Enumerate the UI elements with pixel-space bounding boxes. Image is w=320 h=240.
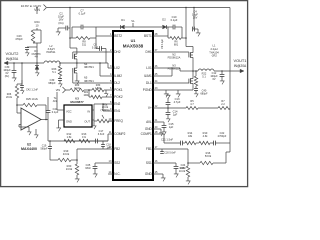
- svg-text:EN1: EN1: [114, 109, 120, 113]
- svg-text:6V: 6V: [212, 77, 215, 81]
- svg-text:FB1: FB1: [146, 147, 152, 151]
- svg-text:0.1µF: 0.1µF: [52, 110, 59, 114]
- pin 26 LX1 (right): [153, 67, 158, 69]
- resistor R18 10.0k: [186, 166, 189, 177]
- svg-text:IN@20A: IN@20A: [6, 57, 19, 61]
- wire VIN drop left: [69, 7, 71, 9]
- capacitor C17 3.3nF: [90, 140, 96, 142]
- svg-text:LX1: LX1: [146, 66, 152, 70]
- snubber capacitor C39 680pF: [59, 76, 61, 79]
- capacitor C41 0.1uF: [46, 110, 51, 112]
- ground op-amp input: [28, 130, 30, 132]
- wire FB1: [158, 148, 188, 150]
- wire VOUT1 sense bus: [229, 108, 231, 152]
- svg-text:4.7: 4.7: [190, 103, 194, 106]
- svg-text:681: 681: [174, 42, 179, 46]
- svg-text:AVL: AVL: [146, 120, 152, 124]
- svg-text:MAX5038: MAX5038: [123, 44, 144, 49]
- capacitor C2: [68, 27, 70, 29]
- svg-text:C21 1.5nF: C21 1.5nF: [161, 138, 174, 142]
- pin 7 POK2 (left): [108, 96, 113, 98]
- svg-text:EN2: EN2: [114, 102, 120, 106]
- svg-text:SS1: SS1: [146, 161, 152, 165]
- capacitor C13 4.7uF: [167, 107, 169, 109]
- svg-text:GND: GND: [66, 120, 72, 124]
- svg-text:C9 0.1µF: C9 0.1µF: [161, 38, 164, 49]
- svg-text:OUT: OUT: [84, 120, 90, 124]
- snubber resistor R23 5.1: [59, 62, 61, 64]
- svg-text:COMP1: COMP1: [141, 132, 152, 136]
- pin 12 FB2 (left): [108, 148, 113, 150]
- pin 17 FB1 (right): [153, 148, 158, 150]
- wire EN2: [103, 103, 108, 105]
- ground U3: [58, 126, 60, 128]
- capacitor C14 1uF: [167, 108, 169, 112]
- pin 18 COMP1 (right): [153, 133, 158, 135]
- svg-text:BST1: BST1: [144, 34, 152, 38]
- wire PGND: [158, 89, 193, 91]
- svg-text:53.6k: 53.6k: [205, 154, 212, 158]
- svg-text:IRF7821: IRF7821: [84, 65, 94, 69]
- ground N5 source: [76, 75, 78, 79]
- wire VIN right bus down: [229, 8, 231, 72]
- svg-text:FB2: FB2: [114, 147, 120, 151]
- VIN mid chevron: [63, 87, 66, 93]
- wire LX2 node: [76, 61, 78, 67]
- ground C2: [57, 30, 59, 32]
- capacitor C15 1uF: [163, 122, 165, 125]
- svg-text:470pF: 470pF: [15, 37, 23, 41]
- wire DH1 gate: [158, 51, 189, 53]
- svg-text:D1: D1: [121, 18, 125, 22]
- resistor R8 511: [71, 27, 73, 38]
- ground R20: [76, 175, 78, 177]
- svg-text:V+: V+: [148, 106, 152, 110]
- svg-text:LX2: LX2: [114, 66, 120, 70]
- wire R24 stem: [36, 7, 38, 9]
- MOSFET N5 IRF7821: [72, 68, 74, 73]
- VOUT1 arrow: [240, 69, 244, 73]
- wire VIN drop right: [185, 7, 187, 9]
- wire R29-R30 junction: [84, 89, 92, 91]
- wire U3 GND: [59, 119, 65, 121]
- capacitor C4: [193, 7, 195, 9]
- wire FB2: [77, 148, 108, 150]
- resistor R20 24.9k: [75, 164, 78, 175]
- wire AVL: [158, 121, 164, 123]
- wire loop to VIN drop right: [182, 37, 186, 39]
- svg-text:24.9k: 24.9k: [66, 167, 73, 171]
- resistor R10 4.3k: [196, 142, 199, 144]
- svg-text:4.7µF: 4.7µF: [174, 100, 181, 104]
- svg-text:5.1: 5.1: [202, 74, 206, 78]
- svg-text:VIN: VIN: [56, 88, 60, 92]
- ground PGND 2: [177, 90, 179, 92]
- pin 20 GND (right): [153, 128, 158, 130]
- wire V+ row: [158, 107, 186, 109]
- pin 16 SS1 (right): [153, 162, 158, 164]
- wire LX1 node: [192, 59, 194, 77]
- svg-text:THA104: THA104: [209, 50, 219, 54]
- resistor R13 4.99k: [75, 140, 79, 142]
- wire ILIM1: [158, 75, 172, 77]
- wire U3 IN: [92, 109, 94, 111]
- schematic border frame: [1, 1, 248, 187]
- svg-text:R21: R21: [84, 92, 89, 94]
- pin 3 LX2 (left): [108, 67, 113, 69]
- capacitor C8 0.1uF: [95, 38, 97, 49]
- svg-text:PGND: PGND: [143, 88, 153, 92]
- svg-text:D2: D2: [162, 18, 166, 22]
- capacitor C30 100uF: [13, 62, 15, 64]
- wire DL1 gate: [158, 82, 189, 84]
- pin 28 BST1 (right): [153, 35, 158, 37]
- resistor R29 10.0k: [66, 89, 71, 91]
- ground GND pin 20: [158, 128, 161, 130]
- svg-text:VL: VL: [131, 19, 135, 23]
- wire DH2 gate: [73, 51, 108, 53]
- resistor R21 100k: [88, 90, 90, 97]
- ground C14: [167, 117, 169, 119]
- svg-text:10: 10: [35, 24, 39, 28]
- svg-text:4.3k: 4.3k: [203, 134, 209, 138]
- svg-text:R24: R24: [34, 20, 40, 24]
- svg-text:IN@20A: IN@20A: [234, 64, 247, 68]
- pin 14 N.C. (left): [108, 173, 113, 175]
- svg-text:100k: 100k: [83, 95, 89, 97]
- pin 22 V+ (right): [153, 107, 158, 109]
- VIN arrow: [44, 5, 47, 11]
- snubber resistor R22 5.1: [195, 70, 197, 72]
- svg-text:0.1µF: 0.1µF: [92, 47, 99, 50]
- ground PGND 1: [165, 90, 167, 92]
- pin 21 AVL (right): [153, 121, 158, 123]
- wire LX1 pin: [158, 67, 180, 69]
- wire op-amp output: [41, 119, 48, 121]
- pin 1 BST2 (left): [108, 35, 113, 37]
- wire U3 OUT: [92, 119, 94, 121]
- svg-text:GND: GND: [145, 172, 153, 176]
- MOSFET N4 IRF7821: [72, 54, 74, 59]
- wire non-inverting input: [19, 124, 21, 126]
- resistor R12 1.5k: [64, 139, 75, 142]
- svg-text:33nF: 33nF: [85, 166, 91, 170]
- snubber capacitor C40 680pF: [195, 86, 197, 89]
- svg-text:BST2: BST2: [114, 34, 122, 38]
- svg-text:(Os): (Os): [58, 21, 63, 25]
- svg-text:ILIM1: ILIM1: [144, 74, 152, 78]
- svg-text:1µF: 1µF: [169, 125, 174, 129]
- wire loop to VIN drop: [69, 37, 71, 39]
- svg-text:33nF: 33nF: [180, 166, 186, 170]
- wire VOUT2 rail: [4, 62, 44, 64]
- ground D3: [36, 71, 38, 73]
- svg-text:SS2: SS2: [114, 161, 120, 165]
- ground C12: [221, 79, 223, 81]
- IC U1 MAX5038: [113, 31, 153, 180]
- svg-text:DL2: DL2: [114, 81, 120, 85]
- capacitor C12 100uF: [221, 70, 223, 72]
- svg-text:GND: GND: [145, 127, 153, 131]
- pin 11 COMP2 (left): [108, 133, 113, 135]
- capacitor C18 1nF: [102, 141, 104, 145]
- op-amp U2 MAX4400: [21, 108, 41, 130]
- svg-text:VCC: VCC: [66, 110, 72, 114]
- ground snubber left: [59, 82, 61, 84]
- svg-text:10.0k: 10.0k: [74, 87, 81, 90]
- ground op-amp power: [35, 129, 37, 133]
- capacitor C25 33nF: [95, 162, 108, 164]
- svg-text:2.2: 2.2: [221, 103, 225, 106]
- svg-text:U1: U1: [131, 39, 136, 43]
- svg-text:43k: 43k: [188, 134, 193, 138]
- wire R7 to VIN bus: [229, 71, 231, 108]
- svg-text:IN: IN: [87, 110, 90, 114]
- svg-text:COMP2: COMP2: [114, 132, 125, 136]
- pin 13 SS2 (left): [108, 162, 113, 164]
- ground R18: [187, 177, 189, 179]
- svg-text:N.C.: N.C.: [114, 172, 120, 176]
- svg-text:IRF7821: IRF7821: [84, 79, 94, 83]
- resistor R5 4.7: [186, 107, 198, 110]
- svg-text:DH1: DH1: [146, 50, 153, 54]
- wire VOUT1 rail: [214, 70, 240, 72]
- pin 23 PGND (right): [153, 89, 158, 91]
- wire DL2 gate: [73, 82, 108, 84]
- VOUT2 arrow: [4, 61, 8, 65]
- svg-text:511: 511: [82, 42, 87, 46]
- wire EN1: [103, 110, 108, 112]
- svg-text:5.1: 5.1: [52, 70, 56, 74]
- svg-text:43.0k: 43.0k: [63, 152, 70, 156]
- svg-text:FDS6612A: FDS6612A: [168, 56, 181, 60]
- svg-text:2700pF: 2700pF: [218, 134, 227, 138]
- wire BST1 pin: [158, 35, 168, 37]
- MOSFET N2 FDS6612A: [188, 53, 190, 58]
- pin 24 DL1 (right): [153, 82, 158, 84]
- resistor R30 1.50k: [92, 88, 104, 91]
- svg-text:POK1: POK1: [114, 88, 123, 92]
- svg-text:MAX8877: MAX8877: [70, 100, 84, 104]
- svg-text:1.5k: 1.5k: [67, 135, 73, 139]
- ground POK1: [105, 90, 107, 92]
- svg-text:POK2: POK2: [114, 95, 123, 99]
- pin 9 EN1 (left): [108, 110, 113, 112]
- svg-text:DL1: DL1: [146, 81, 152, 85]
- wire inverting input: [16, 105, 18, 113]
- pin 5 DL2 (left): [108, 82, 113, 84]
- wire U3 VCC: [56, 92, 58, 110]
- svg-text:VOUT1: VOUT1: [234, 58, 247, 63]
- wire LX2 rail: [60, 62, 77, 64]
- svg-text:680pF: 680pF: [48, 81, 56, 85]
- wire N3 source to PGND: [192, 85, 194, 90]
- resistor R6 681: [167, 27, 169, 38]
- wire ILIM2: [100, 75, 108, 77]
- pin 10 FREQ (left): [108, 120, 113, 122]
- MOSFET N3 FDS6612A: [188, 79, 190, 84]
- svg-text:C42 1.2nF: C42 1.2nF: [26, 88, 38, 92]
- wire VOUT2 sense drop: [21, 62, 23, 64]
- ground C15: [163, 130, 165, 132]
- ground C24: [175, 172, 177, 174]
- wire COMP2 row: [48, 140, 108, 142]
- pin 4 ILIM2 (left): [108, 75, 113, 77]
- svg-text:FREQ: FREQ: [114, 119, 123, 123]
- pin 15 GND (right): [153, 173, 158, 175]
- wire EN rail to FREQ: [94, 103, 103, 105]
- svg-text:-40: -40: [34, 55, 38, 59]
- wire VIN rail: [47, 7, 230, 9]
- pin 27 DH1 (right): [153, 51, 158, 53]
- svg-text:VOUT2: VOUT2: [6, 51, 19, 56]
- svg-text:16V: 16V: [193, 16, 198, 20]
- svg-text:680pF: 680pF: [200, 91, 208, 95]
- svg-text:3.3nF: 3.3nF: [98, 132, 105, 136]
- pin 8 EN2 (left): [108, 103, 113, 105]
- resistor R16 53.6k: [187, 149, 189, 166]
- pin 6 POK1 (left): [108, 89, 113, 91]
- ground snubber right: [195, 92, 197, 94]
- wire FREQ: [109, 120, 113, 122]
- svg-text:1.50k: 1.50k: [95, 87, 102, 90]
- ground C30: [13, 76, 15, 78]
- svg-text:0.1µF: 0.1µF: [171, 18, 178, 22]
- pin 25 ILIM1 (right): [153, 75, 158, 77]
- svg-text:FDS6612A: FDS6612A: [168, 67, 181, 71]
- svg-text:DH2: DH2: [114, 50, 121, 54]
- ground FREQ pot: [93, 124, 95, 126]
- resistor R14 43k: [185, 141, 196, 144]
- capacitor C22 2700pF: [210, 142, 214, 144]
- ground C4: [197, 31, 199, 33]
- svg-text:C20 5.6nF: C20 5.6nF: [164, 152, 176, 155]
- svg-text:560pF: 560pF: [40, 147, 48, 150]
- wire LX2 rail to pin: [77, 62, 108, 64]
- capacitor C24 33nF: [158, 162, 176, 164]
- svg-text:MAX4400: MAX4400: [21, 147, 37, 151]
- svg-text:AVL: AVL: [53, 100, 58, 103]
- svg-text:20.0k: 20.0k: [6, 96, 13, 99]
- ground C42: [21, 89, 23, 91]
- svg-text:R25 10.2k: R25 10.2k: [26, 97, 39, 101]
- pin 2 DH2 (left): [108, 51, 113, 53]
- svg-text:(TMPG): (TMPG): [100, 108, 109, 112]
- ground C25: [94, 172, 96, 174]
- ground C43: [26, 51, 28, 53]
- wire BST2 pin: [96, 35, 108, 37]
- svg-text:-2R2: -2R2: [211, 54, 217, 58]
- svg-text:(6x): (6x): [5, 74, 10, 78]
- wire COMP1: [158, 133, 164, 135]
- svg-text:2.2µH: 2.2µH: [211, 47, 218, 51]
- svg-text:PA0511: PA0511: [46, 50, 56, 54]
- svg-text:ILIM2: ILIM2: [114, 74, 122, 78]
- svg-text:1µF: 1µF: [173, 113, 178, 117]
- svg-text:0.1µF: 0.1µF: [79, 12, 86, 16]
- ground GND pin 16: [158, 173, 163, 175]
